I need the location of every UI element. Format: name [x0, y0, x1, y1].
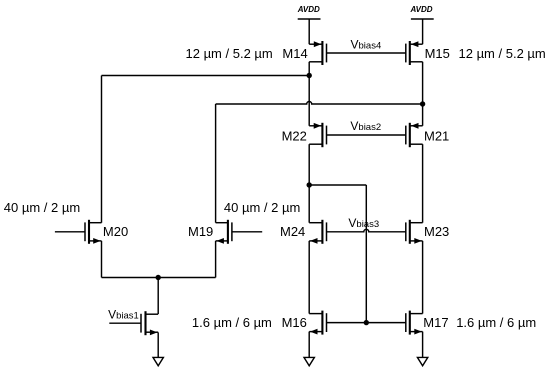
node D junction dot: [364, 320, 369, 325]
wire M20 source down to tail: [101, 241, 103, 278]
wire tail horizontal: [102, 277, 216, 279]
svg-text:M22: M22: [282, 128, 307, 143]
svg-text:M21: M21: [424, 128, 449, 143]
wire M15 drain to node B: [422, 62, 424, 104]
wire M19 source down to tail: [215, 241, 217, 278]
wire M22 drain down to M24 drain: [308, 144, 310, 223]
node B junction dot: [420, 101, 425, 106]
wire M14 drain to node A: [308, 62, 310, 76]
wire middle column vertical down to node D: [365, 185, 367, 323]
wire bias transistor source to ground: [157, 332, 159, 357]
power AVDD left: [297, 5, 321, 44]
svg-text:40 µm / 2 µm: 40 µm / 2 µm: [224, 200, 300, 215]
svg-text:12 µm / 5.2 µm: 12 µm / 5.2 µm: [459, 46, 546, 61]
wire M20 drain vertical: [101, 76, 103, 223]
svg-text:M23: M23: [424, 224, 449, 239]
svg-text:M16: M16: [282, 315, 307, 330]
net gate wire M16-M17: [327, 322, 406, 324]
wire M17 source to ground: [422, 332, 424, 358]
svg-text:Vbias1: Vbias1: [108, 307, 139, 321]
svg-text:M19: M19: [188, 224, 213, 239]
wire M19 drain vertical: [215, 104, 217, 223]
svg-text:1.6 µm / 6 µm: 1.6 µm / 6 µm: [192, 315, 272, 330]
ground symbol below Vbias1 transistor: [153, 357, 163, 365]
wire node B to M21 source: [422, 104, 424, 126]
svg-text:1.6 µm / 6 µm: 1.6 µm / 6 µm: [456, 315, 536, 330]
node C junction dot: [307, 182, 312, 187]
net Vbias2 gate wire M22-M21: [327, 134, 406, 136]
wire M23 source down to M17 drain: [422, 241, 424, 314]
transistor M20: [55, 220, 102, 244]
svg-text:AVDD: AVDD: [410, 5, 433, 14]
net Vbias4 gate wire M14-M15: [327, 52, 406, 54]
net Vbias3 gate wire M24-M23 with hop over middle column: [327, 229, 406, 232]
transistor M14: [309, 41, 326, 65]
svg-text:Vbias3: Vbias3: [348, 216, 379, 230]
transistor M23: [406, 220, 423, 244]
wire M16 source to ground: [308, 332, 310, 358]
wire tail down to bias transistor drain: [157, 278, 159, 315]
wire M19 drain to node B with hop over left column: [216, 102, 423, 104]
transistor M22: [309, 123, 326, 147]
wire M21 drain down to M23 drain: [422, 144, 424, 223]
svg-text:M17: M17: [423, 315, 448, 330]
svg-text:AVDD: AVDD: [297, 5, 320, 14]
node A junction dot: [307, 73, 312, 78]
svg-text:12 µm / 5.2 µm: 12 µm / 5.2 µm: [186, 46, 273, 61]
transistor M16: [309, 311, 326, 335]
transistor M21: [406, 123, 423, 147]
svg-text:M15: M15: [425, 46, 450, 61]
transistor M24: [309, 220, 326, 244]
ground symbol below M17: [417, 357, 427, 365]
svg-text:40 µm / 2 µm: 40 µm / 2 µm: [4, 200, 80, 215]
svg-text:Vbias4: Vbias4: [351, 38, 382, 52]
node E tail junction dot: [156, 275, 161, 280]
wire node C to middle column: [309, 184, 366, 186]
transistor Vbias1 current source: [109, 311, 158, 335]
transistor M19: [216, 220, 263, 244]
transistor M15: [406, 41, 423, 65]
wire M24 source down to M16 drain: [308, 241, 310, 314]
svg-text:M24: M24: [280, 224, 305, 239]
wire node A to M20 drain (horizontal): [102, 75, 310, 77]
svg-text:M14: M14: [282, 46, 307, 61]
power AVDD right: [410, 5, 434, 44]
svg-text:M20: M20: [103, 224, 128, 239]
transistor M17: [406, 311, 423, 335]
ground symbol below M16: [304, 357, 314, 365]
svg-text:Vbias2: Vbias2: [350, 119, 381, 133]
wire node A to M22 source: [308, 76, 310, 126]
